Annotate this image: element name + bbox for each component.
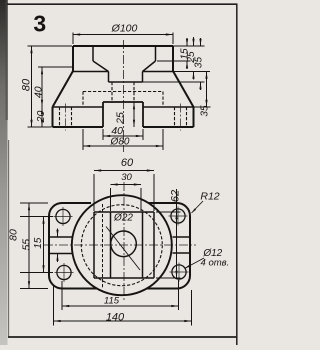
svg-text:3: 3 xyxy=(33,11,46,37)
svg-text:35: 35 xyxy=(199,105,210,117)
svg-text:40: 40 xyxy=(32,86,44,98)
svg-text:115: 115 xyxy=(104,295,120,306)
svg-text:140: 140 xyxy=(106,311,125,323)
svg-text:30: 30 xyxy=(121,172,132,183)
svg-text:80: 80 xyxy=(21,78,33,91)
svg-text:4 отв.: 4 отв. xyxy=(201,258,230,269)
svg-text:15: 15 xyxy=(33,237,44,249)
svg-text:40: 40 xyxy=(111,125,123,137)
svg-text:R12: R12 xyxy=(200,191,219,203)
svg-text:62: 62 xyxy=(170,190,182,202)
svg-text:60: 60 xyxy=(121,157,134,169)
svg-text:80: 80 xyxy=(8,229,20,241)
svg-text:25: 25 xyxy=(115,112,127,125)
svg-text:Ø22: Ø22 xyxy=(113,213,133,224)
svg-text:20: 20 xyxy=(35,111,47,124)
svg-text:Ø80: Ø80 xyxy=(110,136,130,147)
svg-text:35: 35 xyxy=(193,57,204,69)
svg-text:Ø100: Ø100 xyxy=(111,23,138,35)
svg-text:55: 55 xyxy=(21,239,33,251)
